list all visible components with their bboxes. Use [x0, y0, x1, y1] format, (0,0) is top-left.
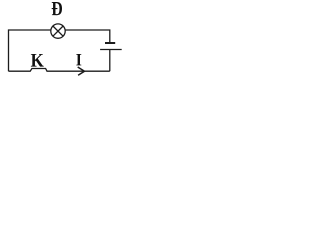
wire lamp to top-right corner down to battery: [65, 30, 110, 42]
battery short plate (top, thick): [105, 42, 115, 44]
wire battery down to bottom-right corner: [109, 50, 111, 71]
label I: [76, 54, 81, 65]
label K: [31, 54, 44, 67]
wire left side and top-left segment: [9, 30, 51, 71]
lamp Đ (circle with X): [51, 24, 65, 38]
label Đ: [52, 2, 62, 15]
current arrow head: [78, 67, 85, 75]
battery long plate (bottom, thin): [100, 49, 122, 51]
bottom wire with switch K bump: [9, 69, 110, 72]
